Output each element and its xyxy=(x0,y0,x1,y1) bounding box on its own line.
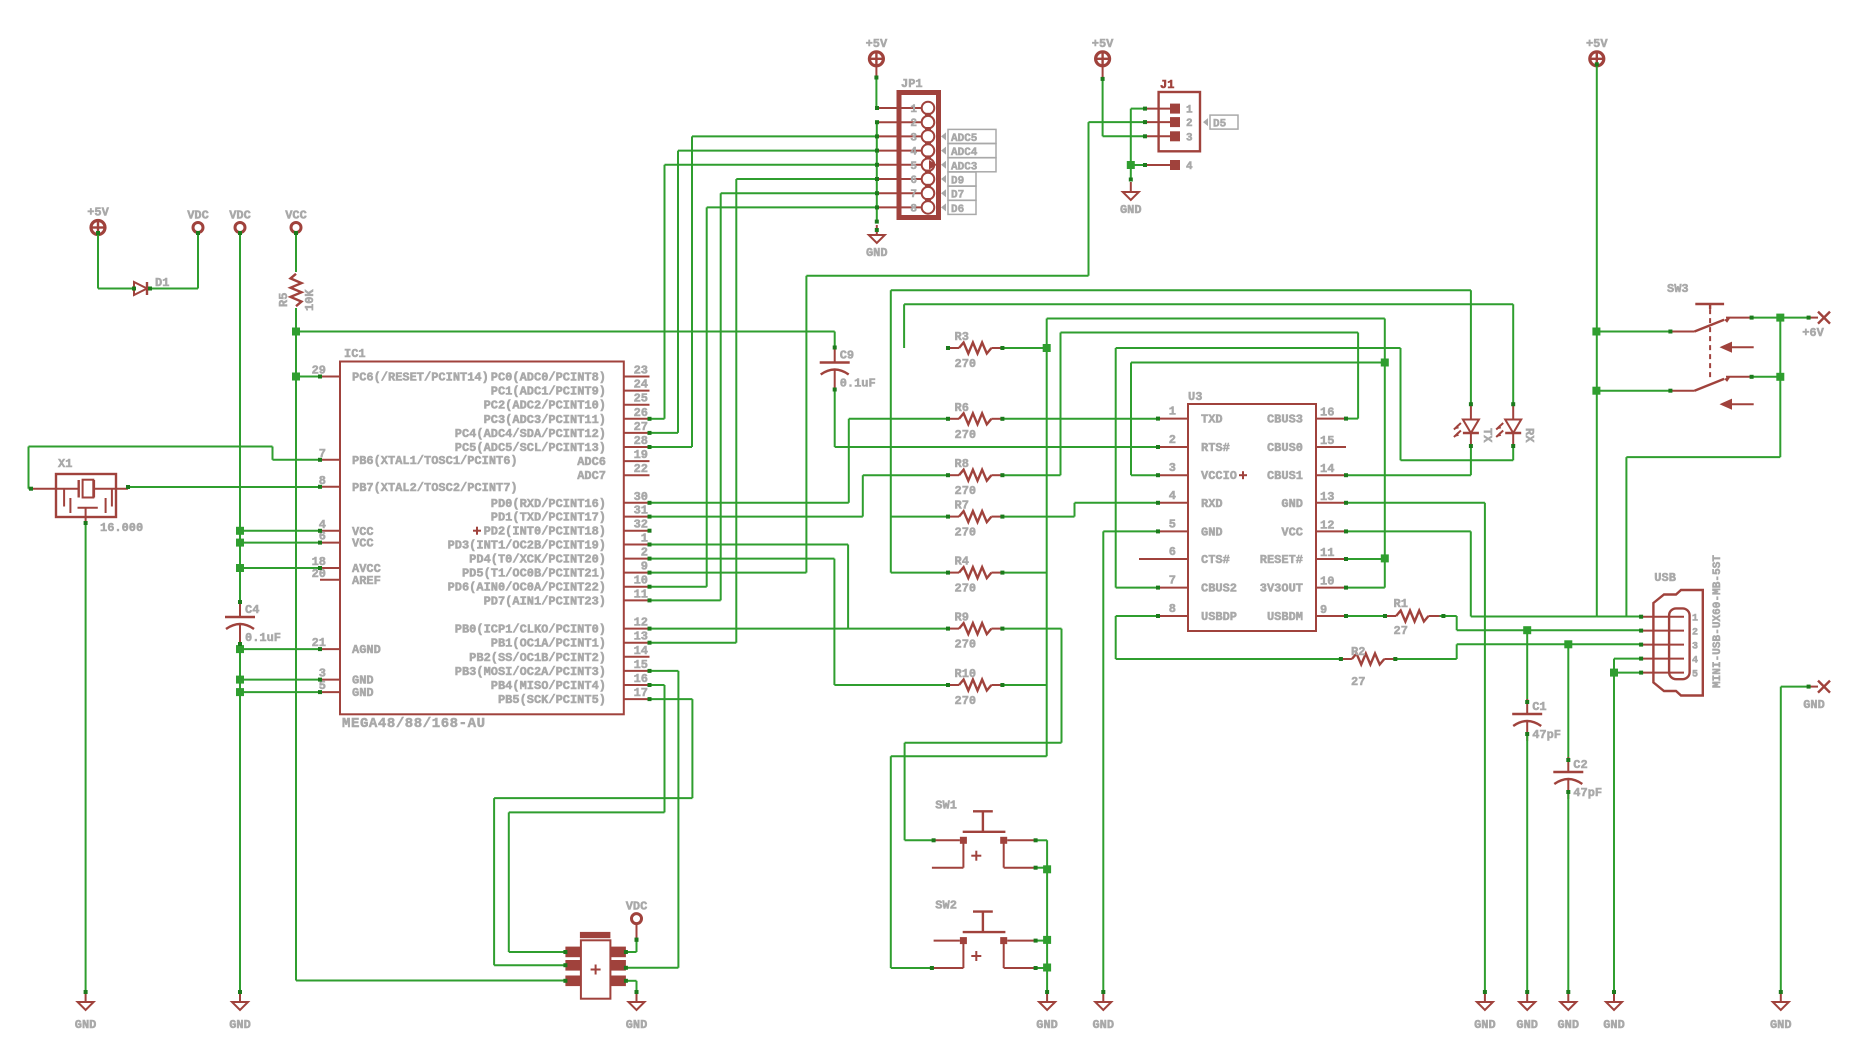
svg-text:10K: 10K xyxy=(303,289,317,311)
svg-text:R7: R7 xyxy=(955,499,969,513)
wire xyxy=(1060,333,1062,476)
svg-text:SW2: SW2 xyxy=(935,899,957,913)
svg-text:3: 3 xyxy=(910,132,917,144)
svg-text:11: 11 xyxy=(634,587,648,601)
wire xyxy=(636,981,638,992)
svg-text:GND: GND xyxy=(1281,497,1303,511)
svg-text:CBUS0: CBUS0 xyxy=(1267,441,1303,455)
IC1 pin 25 xyxy=(624,404,650,406)
supply +5V xyxy=(1590,52,1604,66)
USB pin 5 xyxy=(1641,672,1684,674)
wire RX led anode xyxy=(1512,304,1514,404)
junction xyxy=(1776,373,1784,381)
wire reset net vertical xyxy=(1046,319,1048,757)
svg-text:+6V: +6V xyxy=(1802,326,1824,340)
svg-text:GND: GND xyxy=(626,1018,648,1032)
wire to IC1 pin 5 xyxy=(240,691,320,693)
svg-text:4: 4 xyxy=(1692,656,1698,667)
SW3 arrow bottom xyxy=(1722,400,1754,408)
capacitor C4 xyxy=(239,602,241,617)
U3 pin 4 xyxy=(1158,502,1188,504)
wire JP1 row y=136.4 xyxy=(692,135,877,137)
resistor R3 xyxy=(948,347,959,349)
svg-text:R3: R3 xyxy=(955,330,969,344)
IC1 pin 32 xyxy=(624,530,650,532)
svg-text:4: 4 xyxy=(1169,489,1176,503)
IC1 pin 9 xyxy=(624,572,650,574)
junction xyxy=(292,373,300,381)
wire to IC1 pin 18 xyxy=(240,567,320,569)
wire xyxy=(509,811,665,813)
wire R3 right xyxy=(1002,347,1046,349)
svg-text:16: 16 xyxy=(634,672,648,686)
IC1 pin 29 xyxy=(320,376,340,378)
wire USBDP to R2 xyxy=(1116,658,1341,660)
net flag ADC5 xyxy=(941,132,946,140)
junction xyxy=(1381,359,1389,367)
svg-text:13: 13 xyxy=(634,630,648,644)
U3 pin 8 xyxy=(1158,615,1188,617)
svg-text:GND: GND xyxy=(1474,1018,1496,1032)
svg-text:JP1: JP1 xyxy=(901,77,923,91)
svg-text:C9: C9 xyxy=(840,349,854,363)
wire xyxy=(677,151,679,433)
wire JP1 row y=193.2 xyxy=(721,192,877,194)
svg-text:30: 30 xyxy=(634,490,648,504)
wire IC1 pin 30 xyxy=(650,502,849,504)
svg-text:VCCIO: VCCIO xyxy=(1201,469,1237,483)
svg-text:2: 2 xyxy=(910,118,917,130)
svg-text:47pF: 47pF xyxy=(1532,728,1561,742)
wire to IC1 pin 29 xyxy=(296,376,320,378)
wire SW1 left xyxy=(905,839,934,841)
svg-text:PB7(XTAL2/TOSC2/PCINT7): PB7(XTAL2/TOSC2/PCINT7) xyxy=(352,481,518,495)
svg-text:13: 13 xyxy=(1320,490,1334,504)
svg-text:MINI-USB-UX60-MB-5ST: MINI-USB-UX60-MB-5ST xyxy=(1712,555,1724,688)
wire SW3 net vertical xyxy=(1779,318,1781,458)
svg-text:PD1(TXD/PCINT17): PD1(TXD/PCINT17) xyxy=(491,511,606,525)
wire D- to USB pin 2 xyxy=(1457,629,1641,631)
wire J1 pin 1 gnd xyxy=(1131,108,1145,110)
wire VDC rail lower xyxy=(239,644,241,992)
IC1 pin 10 xyxy=(624,586,650,588)
svg-text:15: 15 xyxy=(634,658,648,672)
wire J1 pin 4 gnd xyxy=(1131,164,1145,166)
svg-text:VCC: VCC xyxy=(1281,525,1303,539)
wire xyxy=(664,685,666,812)
svg-text:R6: R6 xyxy=(955,401,969,415)
svg-text:12: 12 xyxy=(634,616,648,630)
wire RX cathode lead xyxy=(1512,446,1514,460)
svg-text:1: 1 xyxy=(1692,614,1698,625)
IC1 pin 21 xyxy=(320,648,340,650)
IC1 pin 22 xyxy=(624,474,650,476)
svg-text:1: 1 xyxy=(1169,405,1176,419)
junction xyxy=(1610,669,1618,677)
wire CBUS2 to RX cathode xyxy=(1116,347,1401,349)
wire reset to RTS xyxy=(296,331,835,333)
wire xyxy=(1780,317,1808,319)
IC1 pin 27 xyxy=(624,432,650,434)
wire xyxy=(847,545,849,629)
USB pin 3 xyxy=(1641,644,1684,646)
svg-text:3V3OUT: 3V3OUT xyxy=(1260,582,1303,596)
wire xyxy=(650,642,737,644)
svg-text:12: 12 xyxy=(1320,518,1334,532)
wire to IC1 pin 6 xyxy=(240,542,320,544)
wire xyxy=(1484,503,1486,992)
svg-text:GND: GND xyxy=(1770,1018,1792,1032)
svg-text:4: 4 xyxy=(1186,161,1193,173)
U3 pin 16 xyxy=(1316,418,1346,420)
svg-text:USB: USB xyxy=(1654,571,1676,585)
wire C9 to RTS xyxy=(834,390,836,448)
J1 pin 4 xyxy=(1145,164,1170,166)
ground xyxy=(636,992,638,1002)
svg-text:RESET#: RESET# xyxy=(1260,553,1303,567)
wire xyxy=(677,671,679,968)
IC1 pin 11 xyxy=(624,599,650,601)
wire ICSP MOSI xyxy=(626,967,679,969)
svg-text:PC1(ADC1/PCINT9): PC1(ADC1/PCINT9) xyxy=(491,385,606,399)
wire ICSP to GND xyxy=(626,980,637,982)
svg-text:PD4(T0/XCK/PCINT20): PD4(T0/XCK/PCINT20) xyxy=(469,553,606,567)
wire D5 horizontal xyxy=(806,275,1088,277)
svg-text:ADC7: ADC7 xyxy=(577,469,606,483)
USB pin 2 xyxy=(1641,630,1684,632)
resistor R7 xyxy=(948,516,959,518)
wire xyxy=(1130,363,1132,476)
svg-text:R8: R8 xyxy=(955,457,969,471)
wire JP1 row y=150.6 xyxy=(678,150,877,152)
svg-text:RTS#: RTS# xyxy=(1201,441,1230,455)
svg-text:7: 7 xyxy=(1169,574,1176,588)
svg-text:MEGA48/88/168-AU: MEGA48/88/168-AU xyxy=(342,716,485,732)
svg-text:GND: GND xyxy=(1092,1018,1114,1032)
IC1 pin 24 xyxy=(624,390,650,392)
svg-text:5: 5 xyxy=(1692,670,1698,681)
wire FT232 pin 5 GND xyxy=(1103,530,1158,532)
wire xyxy=(1400,348,1402,460)
svg-text:3: 3 xyxy=(1169,461,1176,475)
wire reset rail xyxy=(295,308,297,981)
wire R6 right to FT232 pin 1 xyxy=(1002,418,1158,420)
svg-text:7: 7 xyxy=(910,189,917,201)
svg-text:8: 8 xyxy=(910,203,917,215)
svg-text:USBDP: USBDP xyxy=(1201,610,1237,624)
junction xyxy=(1776,314,1784,322)
svg-text:0.1uF: 0.1uF xyxy=(840,377,876,391)
svg-text:3: 3 xyxy=(1186,132,1193,144)
svg-text:C2: C2 xyxy=(1573,758,1587,772)
wire to IC1 pin 7 xyxy=(273,459,321,461)
wire crystal case to GND xyxy=(85,523,87,992)
wire XTAL2 to IC1 pin 8 xyxy=(128,486,320,488)
svg-text:D5: D5 xyxy=(1213,119,1227,131)
IC1 pin 18 xyxy=(320,567,340,569)
wire USB pin 4 xyxy=(1614,658,1641,660)
wire xyxy=(650,586,707,588)
svg-text:PC2(ADC2/PCINT10): PC2(ADC2/PCINT10) xyxy=(484,399,606,413)
wire XTAL1 top xyxy=(29,446,273,448)
wire FT232 pin 14 CBUS1 xyxy=(1346,474,1471,476)
wire IC1 pin 2 xyxy=(650,558,835,560)
USB pin 1 xyxy=(1641,616,1684,618)
svg-text:C1: C1 xyxy=(1532,700,1546,714)
svg-text:PD0(RXD/PCINT16): PD0(RXD/PCINT16) xyxy=(491,497,606,511)
JP1 pin 4 xyxy=(877,150,922,152)
ground xyxy=(876,225,878,235)
wire VCC to USB VBUS xyxy=(1471,616,1597,618)
svg-text:9: 9 xyxy=(641,560,648,574)
svg-text:0.1uF: 0.1uF xyxy=(245,631,281,645)
IC1 pin 17 xyxy=(624,698,650,700)
svg-text:5: 5 xyxy=(1169,517,1176,531)
svg-text:CBUS1: CBUS1 xyxy=(1267,469,1303,483)
wire to IC1 pin 21 xyxy=(240,648,320,650)
wire reset net to FT232 xyxy=(1047,318,1385,320)
svg-text:PB5(SCK/PCINT5): PB5(SCK/PCINT5) xyxy=(498,693,606,707)
wire to C2 xyxy=(1567,644,1569,760)
svg-text:24: 24 xyxy=(634,378,648,392)
svg-text:270: 270 xyxy=(955,484,977,498)
wire JP1 row y=179.0 xyxy=(736,178,877,180)
wire to FT232 pin 4 xyxy=(1075,502,1159,504)
wire R8 right xyxy=(1002,474,1060,476)
JP1 pin 5 mark xyxy=(929,160,937,170)
svg-text:VDC: VDC xyxy=(187,209,209,223)
wire +5V to JP1 pin 1 xyxy=(875,78,877,109)
net flag D6 xyxy=(941,203,946,211)
U3 pin 7 xyxy=(1158,587,1188,589)
wire FT232 pin 3 VCCIO xyxy=(1131,474,1158,476)
svg-text:R2: R2 xyxy=(1351,645,1365,659)
resistor R10 xyxy=(948,684,959,686)
svg-text:10: 10 xyxy=(1320,575,1334,589)
svg-text:PB6(XTAL1/TOSC1/PCINT6): PB6(XTAL1/TOSC1/PCINT6) xyxy=(352,454,518,468)
IC1 pin 30 xyxy=(624,502,650,504)
svg-text:11: 11 xyxy=(1320,546,1334,560)
svg-text:RX: RX xyxy=(1522,428,1536,443)
ground xyxy=(1567,992,1569,1002)
svg-text:PC0(ADC0/PCINT8): PC0(ADC0/PCINT8) xyxy=(491,371,606,385)
U3 pin 11 xyxy=(1316,558,1346,560)
wire FT232 pin 7 CBUS2 xyxy=(1116,587,1158,589)
capacitor C9 xyxy=(834,348,836,363)
svg-text:PC3(ADC3/PCINT11): PC3(ADC3/PCINT11) xyxy=(484,413,606,427)
svg-text:16: 16 xyxy=(1320,406,1334,420)
IC1 pin 23 xyxy=(624,376,650,378)
ICSP plus mark xyxy=(591,969,601,971)
junction xyxy=(236,688,244,696)
svg-text:AREF: AREF xyxy=(352,574,381,588)
supply VCC xyxy=(291,223,301,233)
wire SW2 left vertical xyxy=(890,756,892,968)
wire xyxy=(272,447,274,460)
J1 pin 1 xyxy=(1145,108,1170,110)
wire R1 right xyxy=(1440,615,1457,617)
net flag D5 at J1 xyxy=(1203,118,1208,126)
wire USB pin 5 xyxy=(1614,672,1641,674)
ground xyxy=(85,992,87,1002)
wire CBUS2 vertical xyxy=(1115,348,1117,588)
wire SW1 right xyxy=(1036,839,1048,841)
wire xyxy=(1781,686,1809,688)
svg-text:47pF: 47pF xyxy=(1573,786,1602,800)
U3 pin 15 xyxy=(1316,446,1346,448)
svg-text:PB0(ICP1/CLKO/PCINT0): PB0(ICP1/CLKO/PCINT0) xyxy=(455,623,606,637)
wire D+ to USB pin 3 xyxy=(1457,643,1641,645)
svg-text:PD5(T1/OC0B/PCINT21): PD5(T1/OC0B/PCINT21) xyxy=(462,567,606,581)
wire RTS to FT232 pin 2 xyxy=(835,446,1158,448)
wire xyxy=(1046,840,1048,992)
wire CBUS3 net xyxy=(1061,332,1359,334)
wire VBUS to USB pin 1 xyxy=(1596,616,1641,618)
svg-text:GND: GND xyxy=(1120,203,1142,217)
connector JP1 xyxy=(899,93,939,218)
svg-text:270: 270 xyxy=(955,694,977,708)
U3 pin 10 xyxy=(1316,587,1346,589)
IC1 pin 14 xyxy=(624,656,650,658)
wire R4 right xyxy=(1002,572,1046,574)
svg-text:VCC: VCC xyxy=(352,537,374,551)
wire xyxy=(626,951,637,953)
svg-text:23: 23 xyxy=(634,364,648,378)
svg-text:PC4(ADC4/SDA/PCINT12): PC4(ADC4/SDA/PCINT12) xyxy=(455,427,606,441)
ground xyxy=(1780,992,1782,1002)
svg-text:PD3(INT1/OC2B/PCINT19): PD3(INT1/OC2B/PCINT19) xyxy=(448,539,606,553)
svg-text:PB3(MOSI/OC2A/PCINT3): PB3(MOSI/OC2A/PCINT3) xyxy=(455,665,606,679)
svg-text:IC1: IC1 xyxy=(344,347,366,361)
wire xyxy=(650,432,679,434)
svg-text:R4: R4 xyxy=(955,555,969,569)
svg-text:270: 270 xyxy=(955,638,977,652)
svg-text:28: 28 xyxy=(634,434,648,448)
J1 +5V pin wire xyxy=(1102,64,1104,79)
svg-text:17: 17 xyxy=(634,686,648,700)
svg-text:14: 14 xyxy=(1320,462,1334,476)
open end GND xyxy=(1818,681,1830,693)
junction xyxy=(1043,936,1051,944)
wire xyxy=(1103,135,1145,137)
wire to IC1 pin 4 xyxy=(240,530,320,532)
supply +5V xyxy=(1096,52,1110,66)
diode D1 xyxy=(134,282,147,295)
resistor R2 xyxy=(1341,658,1352,660)
wire to C1 xyxy=(1526,630,1528,702)
svg-text:270: 270 xyxy=(955,357,977,371)
capacitor C2 xyxy=(1567,757,1569,772)
wire xyxy=(875,107,878,109)
svg-text:PB1(OC1A/PCINT1): PB1(OC1A/PCINT1) xyxy=(491,637,606,651)
svg-text:GND: GND xyxy=(1603,1018,1625,1032)
JP1 pin 2 xyxy=(877,121,922,123)
wire xyxy=(691,136,693,447)
svg-text:3: 3 xyxy=(1692,642,1698,653)
svg-text:GND: GND xyxy=(1036,1018,1058,1032)
wire TX led net xyxy=(891,289,1471,291)
U3 VCCIO plus mark xyxy=(1239,474,1247,476)
svg-text:270: 270 xyxy=(955,526,977,540)
svg-text:1: 1 xyxy=(641,532,648,546)
wire SW3 to VBUS xyxy=(1626,456,1780,458)
wire R10 left xyxy=(834,684,948,686)
wire SW3 to +6V xyxy=(1752,317,1781,319)
IC1 pin 19 xyxy=(624,460,650,462)
IC1 pin 5 xyxy=(320,691,340,693)
IC1 pin 28 xyxy=(624,446,650,448)
svg-text:GND: GND xyxy=(1803,698,1825,712)
IC1 pin 13 xyxy=(624,642,650,644)
svg-text:6: 6 xyxy=(910,175,917,187)
svg-text:27: 27 xyxy=(1394,624,1408,638)
IC1 pin 4 xyxy=(320,530,340,532)
svg-text:10: 10 xyxy=(634,574,648,588)
svg-text:AGND: AGND xyxy=(352,643,381,657)
wire VDC rail xyxy=(239,233,241,603)
wire xyxy=(862,475,864,516)
junction xyxy=(236,539,244,547)
svg-text:R5: R5 xyxy=(277,293,291,307)
wire FT232 pin 10 3V3OUT xyxy=(1346,587,1385,589)
svg-text:GND: GND xyxy=(1516,1018,1538,1032)
wire D5 vertical xyxy=(805,276,807,573)
IC1 pin 20 xyxy=(320,579,340,581)
ground xyxy=(1526,992,1528,1002)
wire xyxy=(28,447,30,489)
supply VDC xyxy=(235,223,245,233)
U3 pin 12 xyxy=(1316,530,1346,532)
resistor R5 xyxy=(291,274,302,306)
IC1 pin 15 xyxy=(624,670,650,672)
svg-text:4: 4 xyxy=(910,147,917,159)
svg-text:RXD: RXD xyxy=(1201,497,1223,511)
junction xyxy=(1592,387,1600,395)
wire FT232 pin 9 USBDM xyxy=(1346,615,1385,617)
IC1 pin 8 xyxy=(320,486,340,488)
svg-text:270: 270 xyxy=(955,428,977,442)
svg-text:GND: GND xyxy=(1557,1018,1579,1032)
wire RX cathode xyxy=(1401,459,1514,461)
svg-text:2: 2 xyxy=(641,546,648,560)
wire SW1 bracket xyxy=(1036,867,1048,869)
svg-text:15: 15 xyxy=(1320,434,1334,448)
svg-text:+5V: +5V xyxy=(1586,37,1608,51)
svg-text:GND: GND xyxy=(75,1018,97,1032)
wire reset net right vertical xyxy=(1384,319,1386,588)
U3 pin 2 xyxy=(1158,446,1188,448)
wire R9 right xyxy=(1002,628,1061,630)
svg-text:PC5(ADC5/SCL/PCINT13): PC5(ADC5/SCL/PCINT13) xyxy=(455,441,606,455)
wire R7 right xyxy=(1002,516,1074,518)
svg-text:PD2(INT0/PCINT18): PD2(INT0/PCINT18) xyxy=(484,525,606,539)
IC1 pin 3 xyxy=(320,679,340,681)
wire FT232 pin 11 RESET# xyxy=(1346,558,1385,560)
svg-text:25: 25 xyxy=(634,392,648,406)
ground xyxy=(1102,992,1104,1002)
wire to R8 left xyxy=(863,474,948,476)
svg-text:8: 8 xyxy=(1169,602,1176,616)
svg-text:+5V: +5V xyxy=(87,206,109,220)
wire xyxy=(1625,457,1627,616)
wire FT232 pin 8 USBDP xyxy=(1116,615,1158,617)
svg-text:U3: U3 xyxy=(1188,390,1202,404)
svg-text:TXD: TXD xyxy=(1201,413,1223,427)
junction xyxy=(292,328,300,336)
wire reset to ICSP xyxy=(296,980,565,982)
IC1 pin 6 xyxy=(320,542,340,544)
wire +5V rail right xyxy=(1596,64,1598,616)
